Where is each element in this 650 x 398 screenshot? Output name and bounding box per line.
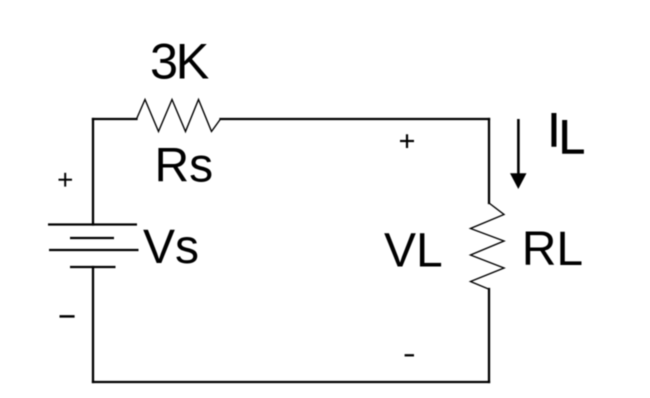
wire right lower	[488, 289, 490, 382]
wire bottom	[93, 381, 489, 383]
wire left lower	[92, 267, 94, 382]
wire top-right segment	[221, 118, 490, 120]
svg-text:Rs: Rs	[155, 140, 214, 193]
minus sign battery	[60, 315, 75, 318]
svg-text:VL: VL	[384, 225, 443, 278]
svg-text:Vs: Vs	[143, 221, 199, 274]
resistor Rs	[137, 100, 221, 132]
wire left upper	[92, 119, 94, 225]
wire right upper	[488, 119, 490, 203]
minus sign VL	[405, 354, 414, 356]
current arrow IL	[517, 119, 520, 175]
svg-text:L: L	[559, 111, 586, 164]
battery Vs plates	[48, 225, 139, 268]
resistor RL	[471, 203, 505, 289]
svg-text:RL: RL	[522, 223, 583, 276]
plus sign battery	[59, 173, 73, 187]
plus sign VL	[400, 134, 414, 148]
wire top-left segment	[93, 118, 137, 120]
svg-text:3K: 3K	[150, 33, 210, 90]
